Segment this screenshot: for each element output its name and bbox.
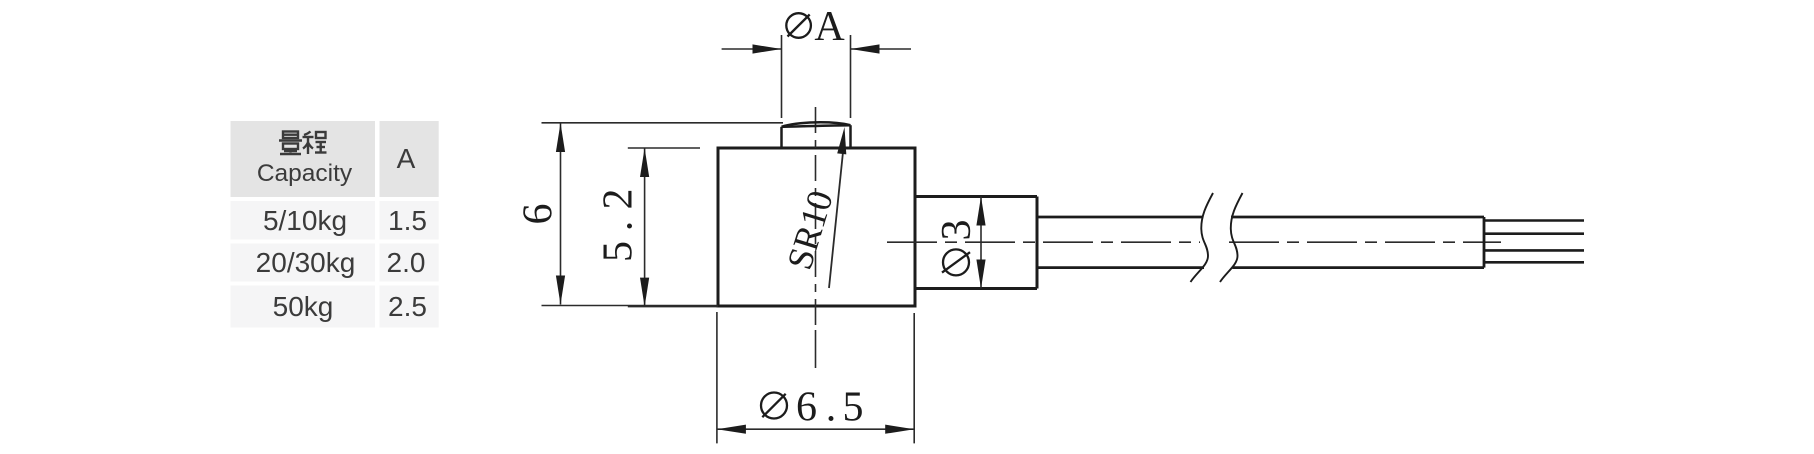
table header capacity cell (231, 121, 376, 197)
svg-text:20/30kg: 20/30kg (256, 247, 356, 278)
dim 6 extension lines (542, 123, 784, 306)
svg-text:3: 3 (934, 220, 980, 241)
dim 3 dimension line (980, 197, 982, 289)
table header A cell (380, 121, 439, 197)
dim A arrow right (851, 44, 880, 53)
connector block (915, 197, 1037, 289)
break curve right (1220, 193, 1243, 282)
wire 2 (1484, 232, 1584, 235)
break curve left (1191, 193, 1214, 282)
header chinese 程 (303, 132, 327, 155)
svg-text:A: A (397, 143, 416, 174)
svg-text:6.5: 6.5 (796, 385, 864, 431)
table row3 cells (231, 286, 376, 328)
dim 5.2 arrows (640, 148, 649, 177)
svg-text:1.5: 1.5 (388, 205, 427, 236)
vertical centerline through cap (815, 107, 817, 332)
dim 6.5 diameter symbol (761, 393, 787, 419)
body outline (718, 148, 915, 306)
dim 6 arrows (556, 123, 565, 152)
dim A extension lines (782, 35, 851, 118)
wire 1 (1484, 219, 1584, 222)
dim 6 dimension line (560, 123, 562, 305)
label SR10 leader line (829, 152, 843, 288)
table row1 cells (231, 201, 376, 240)
dim 3 diameter symbol (942, 249, 970, 275)
cable top edge (1037, 216, 1484, 219)
svg-text:50kg: 50kg (273, 291, 334, 322)
label SR10 leader arrow (837, 127, 846, 154)
dim 6.5 dimension line (717, 428, 914, 430)
svg-text:5/10kg: 5/10kg (263, 205, 347, 236)
svg-text:Capacity: Capacity (257, 160, 353, 187)
wire 4 (1484, 261, 1584, 264)
cable end (1483, 217, 1486, 268)
dim 5.2 dimension line (644, 148, 646, 307)
svg-text:6: 6 (516, 204, 562, 225)
horizontal centerline (887, 241, 1501, 243)
header chinese 量 (279, 132, 302, 155)
cap on top (782, 122, 851, 148)
dim 5.2 extension lines (628, 148, 718, 307)
dim A arrow left (753, 44, 782, 53)
dim 6.5 arrows (717, 425, 746, 434)
dim A dimension lines (722, 48, 911, 50)
table row2 cells (231, 244, 376, 282)
dim 6.5 extension lines (717, 312, 914, 443)
cable bottom edge (1037, 266, 1484, 269)
svg-text:A: A (814, 4, 845, 50)
svg-text:5.2: 5.2 (596, 189, 642, 263)
svg-text:2.5: 2.5 (388, 291, 427, 322)
wire 3 (1484, 249, 1584, 252)
dim A diameter symbol (786, 13, 811, 38)
dim 3 arrows (976, 197, 985, 226)
svg-text:2.0: 2.0 (387, 247, 426, 278)
